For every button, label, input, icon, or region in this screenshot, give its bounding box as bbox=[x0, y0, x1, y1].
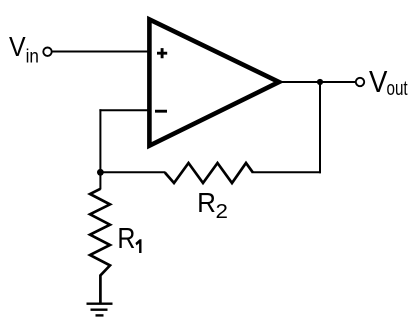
svg-text:R: R bbox=[197, 187, 216, 218]
wire Vin input to op-amp + bbox=[52, 51, 149, 53]
Vin terminal bbox=[43, 48, 51, 56]
svg-text:in: in bbox=[26, 45, 39, 66]
output node junction dot bbox=[317, 79, 323, 85]
Vout terminal bbox=[356, 78, 364, 86]
wire op-amp output to Vout terminal bbox=[277, 81, 356, 83]
svg-text:V: V bbox=[369, 65, 388, 100]
resistor R2 bbox=[165, 163, 253, 183]
label R1 bbox=[117, 222, 141, 254]
wire vertical down to node A bbox=[99, 109, 101, 173]
wire node A to R2 left bbox=[100, 171, 165, 173]
svg-text:2: 2 bbox=[216, 201, 228, 223]
svg-text:V: V bbox=[9, 31, 26, 63]
wire op-amp minus input horizontal bbox=[99, 109, 149, 111]
wire node A down to R1 top bbox=[99, 172, 101, 189]
resistor R1 bbox=[90, 189, 110, 303]
wire vertical feedback from output node bbox=[319, 82, 321, 173]
op-amp U1 bbox=[149, 19, 279, 145]
label Vout bbox=[369, 65, 408, 100]
label Vin bbox=[9, 31, 39, 67]
svg-text:R: R bbox=[117, 222, 135, 254]
svg-text:out: out bbox=[387, 77, 408, 100]
node A junction dot bbox=[97, 169, 104, 176]
ground bbox=[87, 304, 113, 316]
wire R2 right to output vertical bbox=[253, 171, 322, 173]
label R2 bbox=[197, 187, 228, 223]
